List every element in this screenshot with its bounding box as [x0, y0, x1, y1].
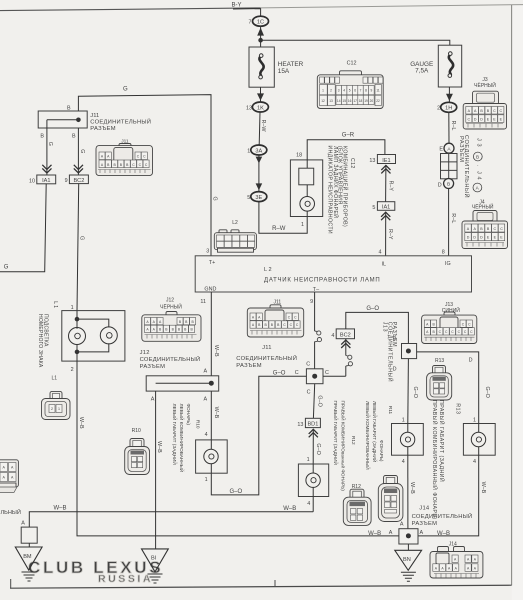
svg-text:BN: BN: [403, 557, 411, 563]
svg-text:J12: J12: [140, 350, 150, 356]
svg-text:BI: BI: [151, 556, 157, 562]
wire J11 to BC2: [77, 128, 79, 175]
svg-text:1K: 1K: [257, 105, 264, 111]
svg-text:4: 4: [473, 459, 476, 465]
svg-text:J11: J11: [262, 345, 272, 351]
svg-text:C12: C12: [349, 158, 355, 169]
wire G-O BC2 top to junction D: [346, 312, 409, 343]
wire W-B R12 to bus: [312, 497, 314, 512]
svg-text:W–B: W–B: [480, 482, 486, 494]
svg-text:D: D: [473, 236, 476, 240]
svg-text:9: 9: [310, 299, 313, 305]
connector BC2 (pin 9): [65, 175, 89, 184]
svg-text:J14: J14: [419, 505, 430, 511]
svg-text:1: 1: [473, 417, 476, 423]
arrow down into 1H: [446, 94, 453, 101]
svg-text:9: 9: [371, 89, 373, 93]
svg-text:4: 4: [379, 250, 382, 256]
svg-text:10: 10: [29, 178, 35, 184]
svg-text:11: 11: [376, 89, 380, 93]
connector BC2 (pin 4): [331, 329, 354, 339]
svg-text:C: C: [493, 109, 496, 113]
rotated text: indicator description: [327, 146, 355, 235]
svg-text:8: 8: [365, 89, 367, 93]
svg-text:4: 4: [343, 89, 345, 93]
labels J12 razyem: [140, 350, 201, 370]
svg-text:5: 5: [247, 195, 250, 201]
connector BD1 (pin 13): [297, 418, 320, 428]
G bus from J11 to sensor T+: [78, 95, 211, 256]
svg-text:J 3: J 3: [476, 138, 482, 147]
svg-text:BC2: BC2: [340, 333, 351, 339]
svg-text:1C: 1C: [257, 20, 264, 26]
svg-text:1: 1: [307, 457, 310, 463]
chevron below IA1: [381, 212, 390, 220]
wire fuse to 1H: [448, 87, 450, 102]
svg-text:ЛЬНЫЙ: ЛЬНЫЙ: [1, 508, 21, 516]
lamp R13: [463, 424, 495, 456]
lamp R10 (left tail light): [196, 440, 228, 473]
rotated text block R10 lamp: [172, 404, 201, 473]
rotated text L1 podsvetka: [37, 301, 58, 368]
svg-text:GND: GND: [204, 287, 216, 293]
svg-text:3A: 3A: [255, 148, 262, 154]
svg-text:R12: R12: [351, 436, 356, 445]
svg-text:C: C: [500, 227, 503, 231]
connector icon L2: [214, 230, 256, 252]
svg-text:G: G: [123, 87, 128, 93]
svg-text:14: 14: [337, 99, 341, 103]
svg-text:КОМБИНАЦИЕЙ ПРИБОРОВ): КОМБИНАЦИЕЙ ПРИБОРОВ): [341, 146, 349, 227]
svg-text:ЧЁРНЫЙ: ЧЁРНЫЙ: [474, 81, 496, 89]
svg-text:T+: T+: [209, 260, 215, 266]
svg-text:13: 13: [246, 105, 252, 111]
svg-text:РАЗЪЕМ: РАЗЪЕМ: [391, 322, 397, 347]
lamp R12: [298, 464, 328, 497]
svg-text:A: A: [420, 530, 424, 536]
svg-text:G–O: G–O: [412, 387, 418, 398]
svg-text:G: G: [4, 265, 9, 271]
node 1C: [249, 16, 269, 26]
svg-text:4: 4: [205, 432, 208, 438]
wire junction D down to R11 lamp: [407, 359, 410, 424]
wire fuse to 1K: [260, 87, 262, 102]
svg-text:G: G: [47, 142, 53, 146]
svg-text:A: A: [204, 369, 208, 375]
svg-text:R–Y: R–Y: [388, 181, 394, 192]
svg-text:5: 5: [349, 89, 351, 93]
wire G-R indicator to IE1: [307, 140, 385, 160]
svg-text:2: 2: [71, 367, 74, 373]
svg-text:W–B: W–B: [213, 407, 219, 419]
svg-text:G–O: G–O: [230, 489, 243, 495]
svg-text:G: G: [78, 236, 84, 240]
svg-text:ФОНАРЬ): ФОНАРЬ): [379, 440, 384, 462]
svg-text:8: 8: [442, 250, 445, 256]
label J4 icon: [472, 200, 494, 211]
svg-text:W–B: W–B: [409, 482, 415, 494]
svg-text:1: 1: [247, 148, 250, 154]
svg-text:7: 7: [249, 20, 252, 26]
svg-text:B: B: [72, 133, 76, 139]
connector icon J4: [462, 211, 508, 249]
chevron below BC2: [341, 340, 350, 348]
ground BM with connector A: [15, 520, 42, 581]
svg-text:ЛЕВЫЙ ГАБАРИТ (ЗАДНИЙ: ЛЕВЫЙ ГАБАРИТ (ЗАДНИЙ: [372, 401, 379, 462]
label J13 icon: [442, 302, 460, 314]
wire W-B R13 to J14 junction: [418, 455, 479, 536]
svg-text:СОЕДИНИТЕЛЬНЫЙ: СОЕДИНИТЕЛЬНЫЙ: [90, 117, 151, 125]
node 1H: [437, 102, 457, 112]
wire J11 to IA1: [46, 120, 48, 175]
wire 1C to fuse: [260, 26, 262, 47]
connector icon R10: [125, 439, 150, 475]
svg-text:IA1: IA1: [42, 178, 50, 184]
wire R-L B to sensor IG: [448, 189, 450, 256]
svg-text:E: E: [439, 147, 443, 153]
svg-text:W–B: W–B: [283, 506, 296, 512]
svg-text:4: 4: [402, 459, 405, 465]
svg-text:18: 18: [359, 99, 363, 103]
svg-text:A: A: [476, 186, 480, 191]
node 1K: [246, 102, 268, 112]
svg-text:13: 13: [297, 422, 303, 428]
fuse GAUGE 7,5A: [410, 45, 461, 87]
svg-text:ПРАВЫЙ ГАБАРИТ (ЗАДНИЙ: ПРАВЫЙ ГАБАРИТ (ЗАДНИЙ: [438, 400, 446, 482]
svg-text:BM: BM: [23, 554, 32, 560]
rotated text block R12 lamp: [333, 401, 356, 492]
svg-text:ПРАВЫЙ КОМБИНИРОВАННЫЙ ФОНАРЬ): ПРАВЫЙ КОМБИНИРОВАННЫЙ ФОНАРЬ): [431, 400, 439, 520]
svg-text:1: 1: [402, 417, 405, 423]
svg-text:C: C: [306, 361, 310, 367]
svg-text:12: 12: [321, 99, 325, 103]
svg-text:W–B: W–B: [213, 345, 219, 357]
svg-text:22: 22: [376, 99, 380, 103]
node 3A: [247, 145, 267, 155]
svg-text:.: .: [476, 165, 482, 167]
svg-text:R–L: R–L: [450, 121, 456, 131]
svg-text:C: C: [295, 370, 299, 376]
svg-text:НОМЕРНОГО ЗНАКА: НОМЕРНОГО ЗНАКА: [37, 314, 43, 368]
svg-text:1H: 1H: [445, 106, 452, 112]
lamp failure sensor box L2: [195, 256, 471, 293]
svg-text:D: D: [467, 236, 470, 240]
wire R-W 1K to 3A: [258, 112, 261, 145]
svg-text:B: B: [40, 133, 44, 139]
junction box C: [306, 369, 323, 384]
svg-text:ЛЕВЫЙ КОМБИНИРОВАННЫЙ: ЛЕВЫЙ КОМБИНИРОВАННЫЙ: [365, 401, 372, 470]
svg-text:R–Y: R–Y: [387, 229, 393, 240]
rotated text block R13 lamp: [431, 400, 460, 520]
svg-text:G–O: G–O: [316, 395, 322, 406]
connector icon cut at left edge: [0, 460, 18, 493]
svg-text:B-Y: B-Y: [232, 3, 242, 9]
svg-text:J11: J11: [90, 113, 99, 119]
connector icon R11: [378, 476, 403, 522]
svg-text:3: 3: [338, 89, 340, 93]
svg-text:HEATER: HEATER: [278, 61, 304, 68]
svg-text:C: C: [493, 227, 496, 231]
svg-text:ФОНАРЬ): ФОНАРЬ): [186, 404, 191, 426]
svg-text:РАЗЪЕМ: РАЗЪЕМ: [90, 126, 116, 132]
svg-text:G: G: [212, 197, 218, 201]
junction box D: [402, 344, 417, 359]
svg-text:РАЗЪЕМ: РАЗЪЕМ: [140, 364, 166, 370]
svg-text:ЛЕВЫЙ КОМБИНИРОВАННЫЙ: ЛЕВЫЙ КОМБИНИРОВАННЫЙ: [179, 404, 186, 473]
fuse HEATER 15A: [249, 47, 304, 87]
svg-text:9: 9: [65, 178, 68, 184]
svg-text:D: D: [438, 182, 442, 188]
chevron above IA1: [42, 165, 51, 173]
label J12 icon: [160, 297, 182, 310]
svg-text:19: 19: [364, 99, 368, 103]
connector icon R13: [427, 366, 452, 401]
svg-text:A: A: [21, 520, 25, 526]
svg-text:RUSSIA: RUSSIA: [98, 573, 151, 585]
wire BC2 down to L1 lamp: [77, 184, 79, 311]
labels J11 #2 razyem: [236, 345, 297, 369]
svg-text:D: D: [480, 236, 483, 240]
svg-text:РАЗЪЕМ: РАЗЪЕМ: [412, 521, 438, 527]
svg-text:B: B: [447, 182, 450, 188]
svg-text:A: A: [151, 396, 155, 402]
svg-text:3: 3: [206, 249, 209, 255]
svg-text:6: 6: [354, 89, 356, 93]
svg-text:L1: L1: [52, 375, 58, 381]
svg-text:J 4: J 4: [475, 171, 481, 180]
watermark: [28, 558, 161, 585]
svg-text:20: 20: [370, 99, 374, 103]
wire G-O junction C left to R10 lamp: [211, 376, 306, 495]
connector circle B (D): [438, 179, 454, 189]
svg-text:R13: R13: [435, 358, 444, 364]
svg-text:L 2: L 2: [264, 267, 272, 273]
connector icon J3: [463, 91, 506, 129]
svg-text:R10: R10: [132, 428, 141, 434]
connector icon L1: [42, 391, 71, 419]
connector IA1 (pin 5): [372, 202, 394, 211]
svg-text:РАЗЪЕМ: РАЗЪЕМ: [458, 136, 464, 163]
connector icon J13 blue: [422, 312, 477, 344]
svg-text:2: 2: [51, 407, 53, 411]
svg-text:D: D: [474, 117, 477, 121]
svg-text:C: C: [499, 109, 502, 113]
svg-text:5: 5: [372, 205, 375, 211]
svg-text:ЛЕВЫЙ ГАБАРИТ (ЗАДНИЙ: ЛЕВЫЙ ГАБАРИТ (ЗАДНИЙ: [172, 404, 179, 465]
wire G from IA1 to left edge: [0, 184, 46, 272]
svg-text:C: C: [307, 390, 311, 396]
svg-text:1: 1: [71, 305, 74, 311]
svg-text:R–W: R–W: [272, 226, 286, 232]
svg-text:7: 7: [360, 89, 362, 93]
svg-text:B: B: [476, 155, 480, 160]
rotated text: soedinitelny razyem J3/J4: [458, 135, 482, 198]
svg-text:BC2: BC2: [73, 178, 84, 184]
svg-text:1: 1: [58, 407, 60, 411]
wire G-O BD1 to R12 lamp: [312, 430, 314, 465]
rotated text J13 razyem: [382, 322, 398, 382]
svg-text:IA1: IA1: [382, 205, 390, 211]
rotated text block R11 lamp: [365, 401, 393, 470]
svg-text:ПРАВЫЙ КОМБИНИРОванный ФОНАРЬ): ПРАВЫЙ КОМБИНИРОванный ФОНАРЬ): [341, 401, 348, 492]
svg-text:РАЗЪЕМ: РАЗЪЕМ: [236, 363, 262, 369]
wire junction D right to R13 lamp: [417, 352, 479, 424]
svg-text:18: 18: [296, 152, 302, 158]
svg-text:15A: 15A: [278, 68, 290, 75]
junction box J12: [146, 376, 219, 391]
svg-text:W–B: W–B: [78, 417, 84, 429]
chevron below IE1: [381, 165, 390, 173]
wire BC2 down segment with connector pair: [345, 339, 347, 356]
svg-text:13: 13: [369, 158, 375, 164]
svg-text:G–R: G–R: [342, 133, 355, 139]
svg-text:16: 16: [348, 99, 352, 103]
svg-text:1: 1: [205, 477, 208, 483]
arrow down into 1K: [257, 93, 264, 100]
junction box A (J14): [399, 529, 418, 544]
svg-text:G: G: [79, 149, 85, 153]
svg-text:G–O: G–O: [366, 306, 379, 312]
svg-text:17: 17: [353, 99, 357, 103]
chevron below BD1: [309, 429, 318, 437]
wire W-B R11 to J14 junction: [407, 455, 409, 529]
svg-text:11: 11: [200, 299, 206, 305]
svg-text:2: 2: [437, 106, 440, 112]
svg-text:2: 2: [330, 89, 332, 93]
lamp R11: [392, 424, 424, 456]
svg-text:3E: 3E: [255, 195, 262, 201]
wire W-B J12 to BI ground: [155, 391, 157, 549]
svg-text:IE1: IE1: [382, 158, 390, 164]
svg-text:15: 15: [342, 99, 346, 103]
svg-text:W–B: W–B: [437, 531, 450, 537]
wire W-B L1 down to bus2: [77, 361, 399, 536]
svg-text:13: 13: [329, 99, 333, 103]
svg-text:ПРАВЫЙ ГАБАРИТ (ЗАДНИЙ: ПРАВЫЙ ГАБАРИТ (ЗАДНИЙ: [333, 401, 340, 465]
svg-text:C12: C12: [347, 61, 357, 67]
junction box J11: [38, 111, 151, 132]
svg-text:1: 1: [301, 222, 304, 228]
wire junction C right to BC2 wire: [323, 375, 346, 377]
wire B-Y from top border to node 1C: [233, 9, 261, 17]
ground BI: [142, 549, 169, 583]
svg-text:D: D: [480, 117, 483, 121]
connector IE1: [369, 155, 395, 164]
connector icon J14: [430, 547, 483, 579]
wire R-L 1H to connector A: [448, 112, 450, 143]
svg-text:4: 4: [307, 501, 310, 507]
inline connector pair on T- wire: [315, 331, 322, 342]
connector icon J12 black: [142, 312, 201, 342]
license plate lamp L1: [62, 311, 125, 362]
arrow above 3E: [256, 183, 263, 190]
junction dot: [258, 38, 263, 43]
svg-text:IG: IG: [445, 261, 451, 267]
svg-text:7,5A: 7,5A: [415, 68, 429, 75]
svg-text:ДАТЧИК НЕИСПРАВНОСТИ ЛАМП: ДАТЧИК НЕИСПРАВНОСТИ ЛАМП: [264, 278, 380, 284]
svg-text:ЧЁРНЫЙ: ЧЁРНЫЙ: [160, 302, 182, 310]
svg-text:ЧЁРНЫЙ: ЧЁРНЫЙ: [472, 203, 494, 211]
svg-text:D: D: [469, 357, 473, 363]
svg-text:W–B: W–B: [368, 531, 381, 537]
svg-text:R–L: R–L: [450, 213, 456, 223]
svg-text:T–: T–: [313, 287, 319, 293]
wire junction C down to BD1: [313, 384, 314, 419]
svg-text:A: A: [389, 530, 393, 536]
svg-text:G–O: G–O: [273, 370, 286, 376]
svg-text:W–B: W–B: [54, 505, 67, 511]
svg-text:A: A: [204, 396, 208, 402]
svg-text:A: A: [400, 522, 404, 528]
svg-text:C: C: [467, 117, 470, 121]
svg-text:L 1: L 1: [52, 301, 58, 308]
svg-text:BD1: BD1: [307, 422, 318, 428]
connector IA1 (pin 10): [29, 175, 56, 184]
connector circle A (E): [439, 143, 454, 153]
wire W-B J12 to R10 lamp: [210, 391, 212, 440]
svg-text:R–W: R–W: [260, 120, 266, 133]
svg-text:IL: IL: [382, 262, 387, 268]
svg-text:C: C: [325, 370, 329, 376]
connector icon J11 #2: [247, 305, 303, 337]
svg-text:ИНДИКАТОР НЕИСПРАВНОСТИ: ИНДИКАТОР НЕИСПРАВНОСТИ: [327, 146, 333, 235]
wire W-B sensor GND to J12 junction: [210, 292, 212, 376]
wire T- sensor to junction C: [314, 292, 316, 331]
svg-text:J3: J3: [482, 77, 488, 83]
arrow below 3A: [256, 157, 263, 164]
svg-text:G–O: G–O: [484, 387, 490, 398]
wire R-Y IA1 to sensor IL: [385, 212, 387, 256]
svg-text:R10: R10: [196, 420, 201, 429]
indicator unit box (combination meter): [290, 152, 322, 216]
arrow up into 1C: [257, 28, 264, 36]
svg-text:W–B: W–B: [156, 441, 162, 453]
svg-text:СОЕДИНИТЕЛЬНЫЙ: СОЕДИНИТЕЛЬНЫЙ: [412, 512, 473, 520]
svg-text:СОЕДИНИТЕЛЬНЫЙ: СОЕДИНИТЕЛЬНЫЙ: [140, 355, 201, 363]
connector icon R12: [343, 489, 371, 525]
wire W-B bus1 to BM ground: [29, 512, 313, 527]
labels J14 razyem: [412, 505, 473, 526]
chevron above BC2: [74, 165, 83, 173]
label J3 icon: [474, 77, 496, 89]
svg-text:СОЕДИНИТЕЛЬНЫЙ: СОЕДИНИТЕЛЬНЫЙ: [236, 354, 297, 362]
svg-text:4: 4: [331, 333, 334, 339]
svg-text:1: 1: [322, 89, 324, 93]
wire 3A to 3E: [258, 155, 260, 192]
svg-text:R13: R13: [454, 403, 460, 414]
ground BN: [395, 544, 422, 581]
svg-text:CLUB LEXUS: CLUB LEXUS: [28, 558, 161, 577]
svg-text:J12: J12: [166, 297, 174, 303]
wire R-W 3E to indicator pin 1: [259, 202, 307, 234]
svg-text:L2: L2: [232, 220, 238, 226]
junction block J3/J4 grid: [441, 154, 458, 179]
connector icon C12: [317, 71, 383, 109]
wire R-Y IE1 to IA1: [385, 165, 387, 202]
wire junction to GAUGE fuse: [261, 40, 450, 45]
node 3E: [247, 192, 267, 202]
svg-text:R11: R11: [388, 406, 393, 415]
svg-text:G–O: G–O: [315, 443, 321, 454]
connector icon J11 top-left: [96, 139, 153, 176]
